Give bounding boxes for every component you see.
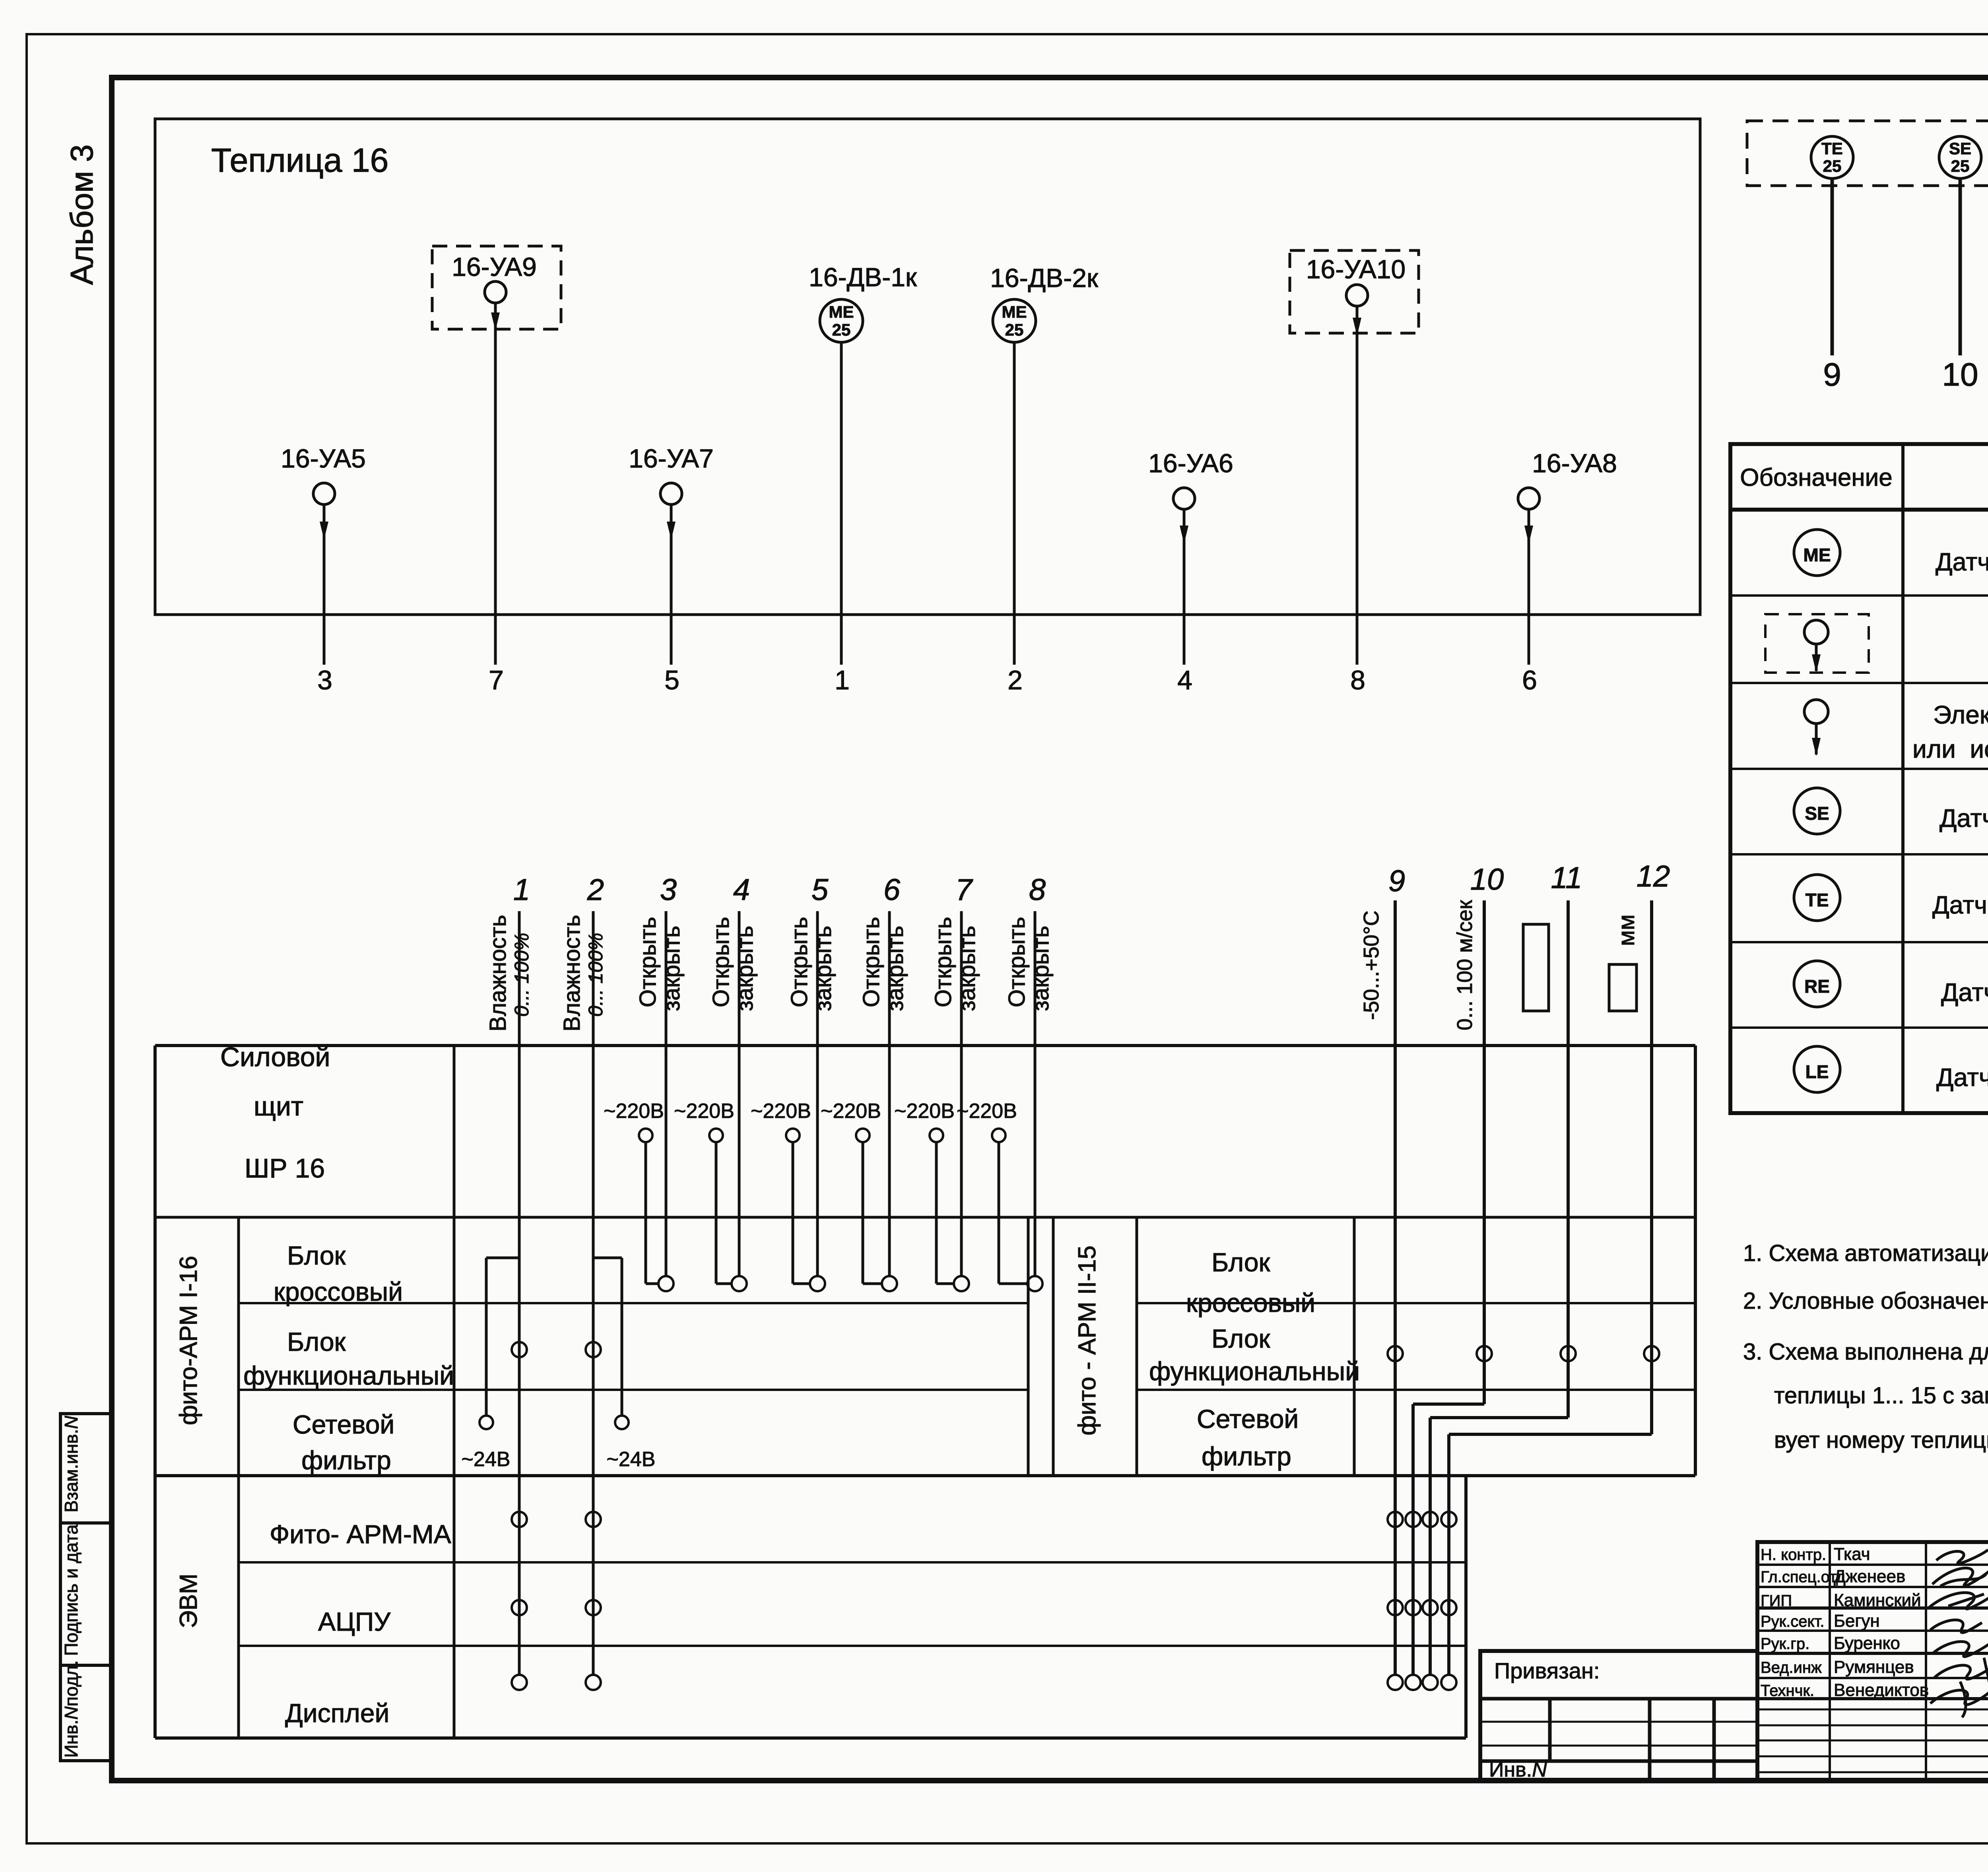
- svg-text:4: 4: [733, 873, 750, 907]
- svg-text:Блок: Блок: [287, 1241, 346, 1270]
- legend symbol TE: [1794, 875, 1840, 921]
- table inner lines: [239, 1046, 1695, 1738]
- main table outline: [155, 1046, 1695, 1738]
- svg-text:3: 3: [660, 873, 677, 907]
- svg-text:Ткач: Ткач: [1834, 1544, 1870, 1564]
- svg-text:Силовой: Силовой: [220, 1042, 330, 1072]
- svg-text:~24В: ~24В: [607, 1448, 656, 1471]
- legend symbol ME: [1794, 530, 1840, 576]
- svg-text:Датчик скорости ветра: Датчик скорости ветра: [1939, 804, 1988, 832]
- svg-text:закрыть: закрыть: [1028, 926, 1054, 1011]
- sensor SE25 on mast: [1939, 136, 1981, 355]
- svg-text:TE: TE: [1806, 890, 1829, 910]
- svg-text:Рук.гр.: Рук.гр.: [1761, 1635, 1809, 1653]
- svg-text:16-УА6: 16-УА6: [1148, 448, 1233, 478]
- svg-text:Румянцев: Румянцев: [1834, 1657, 1914, 1677]
- svg-text:Взам.инв.N: Взам.инв.N: [61, 1416, 82, 1513]
- greenhouse box Теплица 16: [155, 119, 1700, 615]
- svg-text:Фито- АРМ-МА: Фито- АРМ-МА: [270, 1519, 451, 1549]
- svg-text:Открыть: Открыть: [1004, 917, 1030, 1007]
- svg-text:10: 10: [1942, 357, 1978, 393]
- legend symbol gas generator: [1765, 614, 1869, 673]
- svg-text:Вед.инж: Вед.инж: [1761, 1659, 1822, 1676]
- valve 16-УА10: [1290, 250, 1419, 665]
- svg-text:Дженеев: Дженеев: [1834, 1567, 1905, 1586]
- svg-text:Привязан:: Привязан:: [1494, 1658, 1600, 1683]
- svg-text:Бегун: Бегун: [1834, 1611, 1880, 1631]
- valve 16-УА5: [281, 444, 366, 665]
- svg-text:RE: RE: [1804, 976, 1830, 997]
- sensor 16-ДВ-1к (ME 25): [809, 262, 917, 665]
- svg-text:Блок: Блок: [1211, 1247, 1271, 1277]
- svg-text:7: 7: [489, 665, 504, 695]
- svg-text:Н. контр.: Н. контр.: [1761, 1546, 1826, 1564]
- svg-text:Инв.Nподл.: Инв.Nподл.: [61, 1661, 82, 1758]
- 220V supply branch to wire 8: [957, 1100, 1029, 1284]
- svg-text:Обозначение: Обозначение: [1740, 464, 1892, 491]
- wire 1 (влажность): [485, 873, 533, 1690]
- svg-text:16-ДВ-2к: 16-ДВ-2к: [990, 263, 1099, 293]
- svg-text:2. Условные обозначения принят: 2. Условные обозначения приняты по ГОСТ …: [1743, 1288, 1988, 1314]
- legend symbol SE: [1794, 788, 1840, 834]
- svg-text:Влажность: Влажность: [485, 915, 511, 1032]
- legend symbol solenoid valve: [1804, 700, 1828, 756]
- svg-text:16-УА9: 16-УА9: [452, 252, 537, 281]
- svg-text:ME: ME: [829, 303, 854, 321]
- weather mast dashed box: [1747, 121, 1988, 186]
- 220V supply branch to wire 5: [751, 1100, 811, 1284]
- title block: signatures table: [1757, 1542, 1988, 1780]
- svg-text:Датчик температуры наружно: Датчик температуры наружного воздуха: [1932, 891, 1988, 919]
- 220V supply branch to wire 6: [821, 1100, 883, 1284]
- svg-text:11: 11: [1551, 861, 1582, 895]
- svg-text:ME: ME: [1002, 303, 1027, 321]
- svg-text:25: 25: [1823, 157, 1842, 175]
- svg-text:Сетевой: Сетевой: [293, 1410, 394, 1439]
- svg-text:закрыть: закрыть: [954, 926, 980, 1011]
- svg-text:16-УА7: 16-УА7: [629, 444, 714, 473]
- svg-text:1. Схема автоматизации выполне: 1. Схема автоматизации выполнена на осно…: [1743, 1240, 1988, 1266]
- legend table: [1730, 444, 1988, 1113]
- svg-text:закрыть: закрыть: [882, 926, 908, 1011]
- valve 16-УА9: [432, 246, 561, 665]
- svg-text:Открыть: Открыть: [930, 917, 956, 1007]
- junction circles wires 9-12 (АРМ-МА, АЦПУ, Дисплей rows): [1388, 1512, 1456, 1690]
- svg-text:Открыть: Открыть: [786, 917, 812, 1007]
- svg-text:25: 25: [1951, 157, 1970, 175]
- svg-text:0... 100%: 0... 100%: [584, 933, 607, 1017]
- wire 4 (открыть/закрыть): [708, 873, 758, 1291]
- svg-text:Датчик относительной влажн: Датчик относительной влажности воздуха: [1936, 548, 1988, 576]
- svg-text:Открыть: Открыть: [858, 917, 884, 1007]
- svg-text:Датчик солнечной радиации: Датчик солнечной радиации: [1941, 978, 1988, 1007]
- svg-text:Дисплей: Дисплей: [285, 1698, 389, 1728]
- svg-text:4: 4: [1177, 665, 1192, 695]
- svg-text:Блок: Блок: [287, 1327, 346, 1356]
- wire 9 (-50...+50 C): [1359, 864, 1405, 1676]
- svg-text:~24В: ~24В: [462, 1448, 511, 1471]
- svg-text:фито-АРМ I-16: фито-АРМ I-16: [175, 1256, 202, 1425]
- svg-text:25: 25: [832, 320, 851, 339]
- svg-text:Каминский: Каминский: [1834, 1591, 1921, 1610]
- valve 16-УА7: [629, 444, 714, 665]
- svg-text:SE: SE: [1949, 139, 1971, 158]
- svg-text:3: 3: [317, 665, 332, 695]
- wire 5 (открыть/закрыть): [786, 873, 836, 1291]
- svg-text:SE: SE: [1805, 803, 1829, 824]
- svg-text:~220В: ~220В: [604, 1100, 664, 1123]
- sensor 16-ДВ-2к (ME 25): [990, 263, 1099, 665]
- wire 10 (0...100 м/сек): [1413, 863, 1504, 1676]
- svg-text:закрыть: закрыть: [810, 926, 836, 1011]
- svg-text:закрыть: закрыть: [659, 926, 685, 1011]
- svg-text:функциональный: функциональный: [1149, 1356, 1360, 1386]
- svg-text:Инв.N: Инв.N: [1489, 1758, 1547, 1781]
- legend symbol LE: [1794, 1046, 1840, 1092]
- svg-text:5: 5: [812, 873, 829, 907]
- svg-text:функциональный: функциональный: [243, 1361, 454, 1390]
- svg-text:Рук.сект.: Рук.сект.: [1761, 1613, 1825, 1630]
- svg-text:~220В: ~220В: [751, 1100, 811, 1123]
- wire 7 (открыть/закрыть): [930, 873, 980, 1291]
- 24V branch to wire 2: [593, 1258, 655, 1471]
- svg-text:Буренко: Буренко: [1834, 1633, 1900, 1653]
- svg-text:Сетевой: Сетевой: [1197, 1404, 1299, 1434]
- svg-text:16-УА10: 16-УА10: [1306, 254, 1406, 284]
- svg-text:2: 2: [587, 873, 604, 907]
- svg-text:фильтр: фильтр: [301, 1445, 391, 1475]
- svg-text:25: 25: [1005, 320, 1024, 339]
- svg-text:Гл.спец.отд: Гл.спец.отд: [1761, 1568, 1846, 1586]
- svg-text:9: 9: [1388, 864, 1405, 898]
- svg-text:ME: ME: [1804, 545, 1831, 565]
- svg-text:6: 6: [1522, 665, 1537, 695]
- svg-text:16-УА8: 16-УА8: [1532, 448, 1617, 478]
- svg-text:ГИП: ГИП: [1761, 1592, 1792, 1610]
- svg-text:Теплица 16: Теплица 16: [211, 142, 388, 179]
- svg-text:закрыть: закрыть: [732, 926, 758, 1011]
- wire 6 (открыть/закрыть): [858, 873, 908, 1291]
- svg-text:Открыть: Открыть: [635, 917, 661, 1007]
- svg-text:Технчк.: Технчк.: [1761, 1682, 1814, 1699]
- svg-text:ШР 16: ШР 16: [245, 1153, 325, 1183]
- svg-text:-50...+50°C: -50...+50°C: [1359, 910, 1383, 1020]
- svg-text:0... 100 м/сек: 0... 100 м/сек: [1453, 900, 1477, 1030]
- 24V branch to wire 1: [462, 1258, 519, 1471]
- svg-text:теплицы 1... 15 с заменой инде: теплицы 1... 15 с заменой индекса, котор…: [1774, 1383, 1988, 1408]
- svg-text:~220В: ~220В: [957, 1100, 1017, 1123]
- svg-text:фильтр: фильтр: [1202, 1441, 1291, 1471]
- svg-text:5: 5: [664, 665, 679, 695]
- svg-text:Электромагнитный вентиль по: Электромагнитный вентиль полива: [1933, 700, 1988, 729]
- svg-text:TE: TE: [1821, 139, 1843, 158]
- wire 12 (мм) with gauge symbol: [1449, 859, 1670, 1676]
- signature rows text: [1761, 1544, 1988, 1700]
- svg-text:Открыть: Открыть: [708, 917, 734, 1007]
- svg-text:7: 7: [955, 873, 973, 907]
- svg-text:мм: мм: [1613, 914, 1639, 946]
- signature scribbles: [1928, 1550, 1988, 1717]
- wire 3 (открыть/закрыть): [635, 873, 685, 1291]
- left stamp boxes: [60, 1414, 111, 1761]
- svg-text:12: 12: [1637, 859, 1670, 893]
- wire 11 with gauge symbol: [1430, 861, 1582, 1676]
- svg-text:8: 8: [1029, 873, 1046, 907]
- svg-text:АЦПУ: АЦПУ: [318, 1607, 391, 1636]
- svg-text:0... 100%: 0... 100%: [511, 933, 533, 1017]
- svg-text:8: 8: [1350, 665, 1365, 695]
- junction circles wires 9-12 (functional block row): [1388, 1346, 1659, 1361]
- svg-text:кроссовый: кроссовый: [1186, 1288, 1315, 1317]
- svg-text:6: 6: [883, 873, 901, 907]
- svg-text:16-ДВ-1к: 16-ДВ-1к: [809, 262, 917, 292]
- svg-text:Влажность: Влажность: [559, 915, 585, 1032]
- svg-text:1: 1: [513, 873, 530, 907]
- sensor TE25 on mast: [1811, 136, 1853, 355]
- привязан box: [1480, 1651, 1757, 1780]
- svg-text:вует номеру теплицы.: вует номеру теплицы.: [1774, 1427, 1988, 1453]
- wire 2 (влажность): [559, 873, 607, 1690]
- svg-text:2: 2: [1008, 665, 1023, 695]
- 220V supply branch to wire 4: [674, 1100, 734, 1284]
- svg-text:~220В: ~220В: [821, 1100, 881, 1123]
- svg-text:1: 1: [835, 665, 850, 695]
- svg-text:~220В: ~220В: [894, 1100, 955, 1123]
- svg-text:или испарительного охлажден: или испарительного охлаждения: [1912, 735, 1988, 763]
- wire 8 (открыть/закрыть): [1004, 873, 1054, 1291]
- svg-text:кроссовый: кроссовый: [274, 1277, 403, 1306]
- 220V supply branch to wire 7: [894, 1100, 955, 1284]
- legend symbol RE: [1794, 961, 1840, 1007]
- valve 16-УА6: [1148, 448, 1233, 665]
- svg-text:~220В: ~220В: [674, 1100, 734, 1123]
- svg-text:10: 10: [1470, 863, 1504, 896]
- valve 16-УА8: [1518, 448, 1617, 665]
- svg-text:LE: LE: [1806, 1061, 1829, 1082]
- svg-text:16-УА5: 16-УА5: [281, 444, 366, 473]
- 220V supply branch to wire 3: [604, 1100, 664, 1284]
- svg-text:Подпись и дата: Подпись и дата: [61, 1524, 82, 1656]
- svg-text:Альбом 3: Альбом 3: [64, 144, 99, 285]
- svg-text:Датчик количества жидких: Датчик количества жидких осадков: [1936, 1063, 1988, 1092]
- svg-text:9: 9: [1823, 357, 1841, 393]
- svg-text:Венедиктов: Венедиктов: [1834, 1680, 1929, 1700]
- svg-text:3. Схема выполнена для теплицы: 3. Схема выполнена для теплицы 16 и прим…: [1743, 1339, 1988, 1365]
- svg-text:щит: щит: [254, 1091, 303, 1121]
- svg-text:ЭВМ: ЭВМ: [175, 1573, 202, 1628]
- svg-text:фито - АРМ II-15: фито - АРМ II-15: [1074, 1245, 1101, 1436]
- svg-text:Блок: Блок: [1211, 1324, 1271, 1353]
